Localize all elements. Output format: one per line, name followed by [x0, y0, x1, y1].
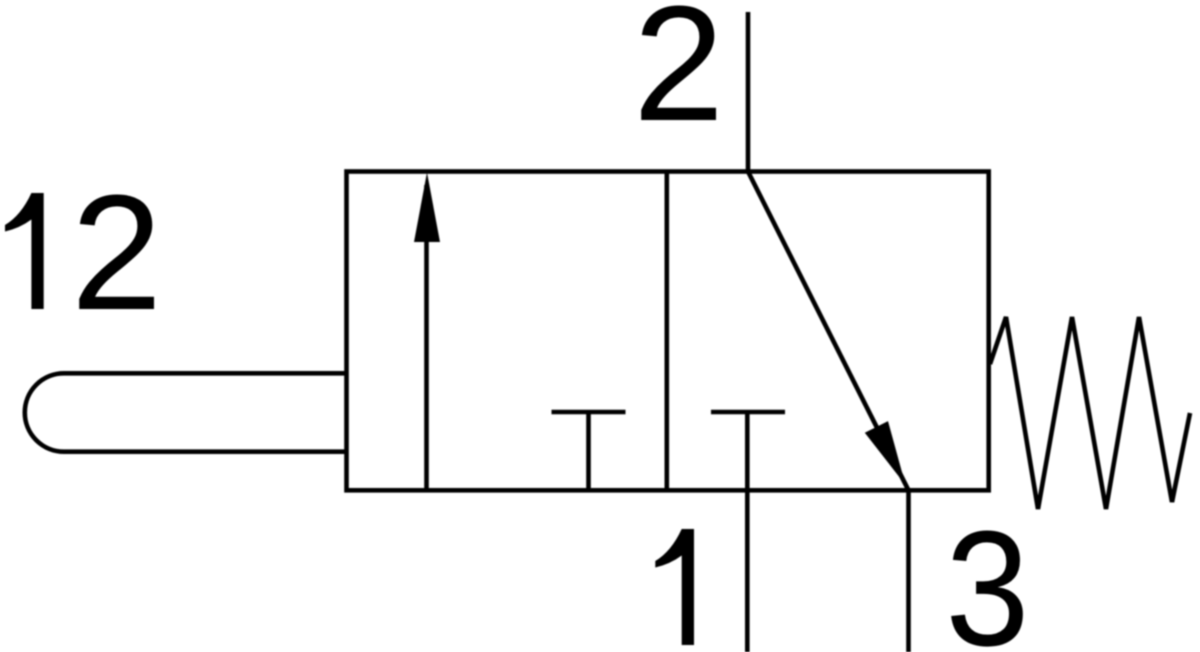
- diagonal flow path (right position) shaft: [748, 172, 909, 491]
- flow path arrow (left position) shaft: [424, 185, 429, 490]
- blocked port symbol T (left position): [552, 412, 626, 490]
- return spring: [990, 317, 1190, 509]
- position divider: [664, 172, 669, 491]
- flow path arrow (left position) head: [414, 173, 440, 243]
- wire port 1 line: [745, 412, 750, 652]
- diagonal flow path arrow head: [865, 421, 906, 485]
- port label 12 (pilot/actuation): [5, 161, 162, 344]
- svg-text:2: 2: [633, 0, 724, 155]
- port label 1: [655, 529, 694, 645]
- valve body (two-position envelope): [347, 172, 989, 491]
- svg-text:3: 3: [945, 497, 1029, 652]
- blocked port symbol T (right position): [711, 410, 785, 415]
- wire port 3 line: [906, 490, 911, 652]
- svg-text:2: 2: [71, 161, 162, 344]
- wire port 2 line: [746, 12, 751, 172]
- push-button plunger actuator: [25, 373, 347, 451]
